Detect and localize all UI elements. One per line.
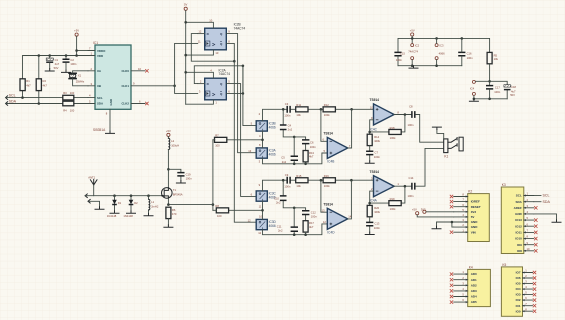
svg-text:SCL: SCL (97, 96, 103, 100)
resistor R6 470 vertical (166, 207, 177, 225)
ground antenna jack (95, 207, 104, 209)
analog switch IC3A 4066 (256, 148, 267, 158)
svg-text:14: 14 (348, 215, 351, 219)
capacitor C12 100n (294, 208, 317, 221)
wire SCL (6, 97, 88, 99)
wire T1 source (168, 198, 213, 204)
svg-text:ANT1: ANT1 (88, 175, 95, 179)
svg-text:VDDO: VDDO (97, 49, 106, 53)
svg-text:R13: R13 (309, 151, 314, 155)
svg-text:+5V: +5V (166, 129, 171, 133)
svg-text:RESET: RESET (471, 205, 481, 209)
svg-text:SDA: SDA (97, 102, 104, 106)
ground IC1 GND pin (106, 131, 115, 133)
ground K3 (552, 220, 561, 222)
svg-text:10: 10 (259, 214, 262, 218)
svg-text:2n2: 2n2 (278, 229, 283, 233)
svg-text:100k: 100k (374, 139, 380, 143)
svg-text:IO8: IO8 (517, 249, 522, 253)
svg-text:R1: R1 (26, 79, 30, 83)
svg-text:IO7: IO7 (516, 271, 521, 275)
node VDDO junction (75, 49, 78, 52)
wire RF to upper switch inputs (227, 131, 263, 148)
svg-text:13: 13 (248, 149, 251, 153)
svg-text:AD4: AD4 (471, 295, 477, 299)
wire IC4A minus input network (370, 186, 405, 205)
svg-text:R11: R11 (296, 103, 301, 107)
svg-text:74AC74: 74AC74 (219, 72, 231, 76)
node lower input junction (261, 209, 264, 212)
svg-text:5V: 5V (471, 215, 475, 219)
svg-text:1N4148: 1N4148 (123, 214, 133, 218)
K5 no-connects (533, 271, 536, 313)
svg-text:R3: R3 (63, 91, 67, 95)
wire R pin IC2B to 5V (186, 50, 219, 55)
node rail junctions (38, 54, 78, 57)
wire clock to IC2A (175, 86, 201, 94)
svg-text:100k: 100k (324, 184, 330, 188)
capacitor C3 100n (284, 102, 290, 118)
capacitor C18 4u7 electrolytic (490, 81, 517, 99)
svg-text:11: 11 (259, 205, 262, 209)
capacitor C14 100n (408, 176, 415, 198)
no-connect CLK2 (145, 102, 148, 105)
wire S pin IC2B from 5V (186, 18, 214, 28)
svg-text:AD3: AD3 (471, 289, 477, 293)
svg-text:100k: 100k (324, 113, 330, 117)
op-amp IC4A TS914 (370, 170, 400, 202)
capacitor C19 100n (168, 169, 192, 180)
svg-text:100uH: 100uH (171, 143, 179, 147)
svg-text:VIN: VIN (471, 230, 476, 234)
svg-text:SCL: SCL (9, 93, 16, 97)
resistor R13 4k7 vertical (303, 151, 314, 164)
node SDA/R2 junction (38, 102, 41, 105)
wire bus to IC3B ctrl (243, 66, 256, 126)
capacitor C5 2n2 (281, 137, 298, 164)
svg-text:X1: X1 (78, 73, 82, 77)
label IC3D (269, 220, 277, 228)
svg-text:100: 100 (215, 144, 220, 148)
node rail C16 junction (461, 37, 464, 40)
svg-text:SCL: SCL (543, 194, 550, 198)
svg-text:2n2: 2n2 (288, 128, 293, 132)
svg-text:R19: R19 (390, 197, 395, 201)
resistor R20 100k vertical (367, 205, 380, 216)
node D2 junction (130, 194, 133, 197)
svg-text:100n: 100n (284, 185, 290, 189)
node SCL/R1 junction (21, 96, 24, 99)
svg-text:IO9: IO9 (517, 243, 522, 247)
svg-text:BF545A: BF545A (173, 193, 183, 197)
svg-text:IO12: IO12 (515, 224, 522, 228)
net label SCL (6, 93, 16, 99)
svg-text:AD2: AD2 (471, 283, 477, 287)
node CLK junction (173, 85, 176, 88)
svg-text:4k7: 4k7 (309, 225, 314, 229)
node C5 bottom junction (293, 163, 296, 166)
svg-text:50V: 50V (510, 93, 515, 97)
label IC2A (219, 68, 231, 76)
svg-text:R14: R14 (374, 135, 379, 139)
node R11/R12 junction (320, 108, 323, 111)
svg-text:IO6: IO6 (516, 276, 521, 280)
wire CLK1 from IC1 (131, 85, 175, 87)
capacitor C7 100n (366, 146, 380, 161)
wire RF to lower switch inputs (228, 201, 262, 219)
wire I- line to IC4B plus input (259, 149, 328, 164)
jack K1 (444, 137, 464, 158)
svg-text:C6: C6 (310, 140, 314, 144)
svg-text:4u7: 4u7 (55, 62, 60, 66)
svg-text:AD0: AD0 (471, 272, 477, 276)
wire Qbar IC2B feedback and bus (191, 34, 234, 62)
svg-text:4k7: 4k7 (309, 155, 314, 159)
svg-text:3V3: 3V3 (471, 210, 477, 214)
ground top right (409, 66, 418, 68)
node rail IC2 junction (411, 37, 414, 40)
node R13 bottom junction (304, 163, 307, 166)
node Qbar bus tap (233, 60, 236, 63)
wire Q chain top (259, 180, 374, 191)
svg-text:TS914: TS914 (323, 132, 333, 136)
ground under R6 (164, 225, 173, 227)
svg-text:L1: L1 (151, 200, 154, 204)
svg-text:SDA: SDA (9, 100, 17, 104)
resistor R2 4k7 (36, 79, 47, 91)
svg-text:C3: C3 (285, 102, 289, 106)
wire to IC4B inverting input (321, 109, 327, 141)
svg-text:GND: GND (109, 99, 113, 105)
K4 no-connects (450, 272, 453, 303)
label IC3A (269, 149, 277, 157)
svg-text:D1: D1 (118, 201, 122, 205)
svg-text:IO4: IO4 (516, 287, 521, 291)
svg-text:IO5: IO5 (516, 282, 521, 286)
svg-text:R18: R18 (390, 126, 395, 130)
inductor L2 100uH (168, 138, 179, 187)
capacitor C17 100n (486, 86, 501, 99)
svg-text:IC4: IC4 (470, 86, 475, 90)
svg-text:4k7: 4k7 (26, 83, 31, 87)
capacitor C8 100n (408, 104, 415, 127)
svg-text:11: 11 (198, 40, 201, 44)
capacitor C2 100n (63, 58, 77, 70)
svg-text:C13: C13 (375, 222, 380, 226)
node IC4D out feedback junction (350, 179, 353, 182)
svg-text:100: 100 (70, 91, 75, 95)
wire IC4C output (394, 114, 411, 116)
resistor R15 10k (296, 174, 308, 188)
svg-text:13: 13 (322, 208, 325, 212)
svg-text:74AC74: 74AC74 (408, 50, 418, 54)
wire to IC4D inverting input (321, 180, 327, 212)
resistor R12 100k (323, 103, 335, 117)
ground K2 (432, 226, 441, 228)
IC1 pin stubs (88, 47, 145, 131)
node source feed junction (212, 203, 215, 206)
svg-text:100n: 100n (284, 114, 290, 118)
wire T1 source feed vertical (212, 140, 214, 211)
wire IC4D output (348, 180, 352, 219)
resistor R11 10k (296, 103, 308, 117)
ground under D2 (127, 211, 136, 213)
node R17 bottom junction (304, 233, 307, 236)
svg-text:IO2: IO2 (516, 298, 521, 302)
resistor R17 4k7 vertical (303, 221, 314, 235)
node source junction (167, 203, 170, 206)
resistor R19 100k feedback (389, 197, 401, 211)
svg-text:SCL: SCL (516, 194, 522, 198)
svg-text:IO13: IO13 (515, 218, 522, 222)
wire R pin IC2A to 5V (186, 100, 218, 105)
svg-text:IO11: IO11 (515, 231, 522, 235)
wire K3 SCL (534, 194, 550, 198)
svg-text:IC1: IC1 (93, 41, 98, 45)
svg-text:VDD: VDD (97, 54, 103, 58)
capacitor C6 100n (294, 137, 316, 151)
net label SDA (6, 100, 17, 106)
svg-text:4u7: 4u7 (511, 89, 516, 93)
power pins IC4 (470, 80, 490, 98)
svg-text:R17: R17 (309, 221, 314, 225)
wire K2 GND pins (437, 222, 454, 227)
ground under C2 (62, 70, 71, 72)
capacitor C15 100n (394, 51, 405, 65)
svg-text:100: 100 (70, 109, 75, 113)
no-connect CLK0 (145, 69, 148, 72)
svg-text:4k7: 4k7 (43, 83, 48, 87)
svg-text:C16: C16 (467, 51, 472, 55)
ground under C7 (365, 161, 374, 163)
ground K1 (432, 127, 441, 129)
svg-text:IC4A: IC4A (370, 198, 378, 202)
svg-text:IO10: IO10 (515, 237, 522, 241)
svg-text:12: 12 (323, 220, 326, 224)
node 5V/S2 junction (184, 71, 187, 74)
node VB junction (488, 80, 491, 83)
svg-text:+5V: +5V (412, 207, 417, 211)
diode D1 1N4148 (107, 196, 122, 218)
svg-text:T1: T1 (173, 188, 177, 192)
node R15/R16 junction (320, 179, 323, 182)
svg-text:10: 10 (370, 105, 373, 109)
node bias mid junction lower (293, 207, 296, 210)
svg-text:K1: K1 (444, 154, 448, 158)
svg-text:IC2: IC2 (415, 44, 420, 48)
K2 pin stubs (454, 193, 468, 234)
node drain/C19 junction (167, 168, 170, 171)
resistor R3 100 (63, 91, 75, 100)
svg-text:1N4148: 1N4148 (107, 214, 117, 218)
capacitor C1 4u7 (46, 58, 59, 70)
svg-text:C2: C2 (70, 58, 74, 62)
svg-text:10k: 10k (494, 57, 499, 61)
wire Q- line to IC4D plus input (258, 220, 327, 235)
antenna ANT1 (88, 175, 97, 195)
connector K2 (468, 190, 490, 242)
crystal X1 25MHz (68, 71, 88, 86)
svg-text:100n: 100n (467, 56, 473, 60)
wire D pin IC2B stub (198, 30, 205, 34)
svg-text:R6: R6 (172, 208, 176, 212)
IC1 SI5351A (93, 41, 131, 132)
svg-text:IO0: IO0 (516, 309, 521, 313)
wire Qbar IC2A feedback (194, 66, 243, 94)
power +5V symbol K2 (412, 207, 454, 217)
node L1 junction (147, 194, 150, 197)
op-amp IC4C TS914 (370, 98, 400, 131)
node upper input junction (261, 139, 264, 142)
svg-text:C5: C5 (281, 156, 285, 160)
svg-text:10: 10 (209, 18, 212, 22)
ground under C19 (176, 181, 185, 183)
capacitor C16 100n (458, 38, 473, 65)
svg-text:C1: C1 (55, 58, 59, 62)
power +5V symbol left (74, 28, 79, 55)
svg-text:XB: XB (97, 84, 101, 88)
node VB gnd junctions (473, 98, 491, 101)
svg-text:AREF: AREF (514, 206, 522, 210)
capacitor C4 2n2 (280, 109, 294, 137)
svg-text:12: 12 (248, 218, 251, 222)
node IC4A minus junction (368, 202, 371, 205)
node D1 junction (113, 194, 116, 197)
svg-text:C10: C10 (274, 196, 279, 200)
node 5V/R junction (184, 54, 187, 57)
svg-text:CLK2: CLK2 (121, 102, 129, 106)
wire C14 to jack ring (416, 148, 444, 186)
analog switch IC3C 4066 (256, 191, 267, 201)
svg-text:4066: 4066 (269, 153, 276, 157)
wire IC4A output (394, 185, 411, 187)
resistor R4 100 (63, 101, 75, 112)
svg-text:R12: R12 (324, 103, 329, 107)
power +5V symbol at T1 (166, 129, 171, 138)
K3 no-connects (534, 206, 537, 252)
wire clock to IC2B (175, 40, 202, 86)
K4 pin stubs (454, 270, 468, 303)
node output feedback junction lower (404, 185, 407, 188)
wire SDA (6, 103, 88, 105)
power pins IC2 (408, 44, 419, 66)
svg-text:10k: 10k (296, 184, 301, 188)
capacitor C11 2n2 (277, 208, 298, 235)
svg-text:50V: 50V (54, 66, 59, 70)
power +5V symbol top right (410, 29, 415, 44)
svg-text:100n: 100n (311, 215, 317, 219)
wire D pin IC2A stub (198, 80, 205, 84)
wire IC4B output (348, 109, 352, 148)
ground under C1 (45, 69, 54, 71)
wire C8 to jack tip (416, 115, 444, 143)
power pins IC3 (435, 38, 445, 65)
svg-text:100n: 100n (186, 177, 192, 181)
svg-text:R15: R15 (296, 174, 301, 178)
svg-text:C15: C15 (400, 51, 405, 55)
svg-text:100n: 100n (408, 194, 414, 198)
svg-text:12: 12 (258, 231, 261, 235)
node gnd bus junctions (411, 64, 438, 67)
svg-text:GND: GND (515, 212, 523, 216)
wire +5V rail (23, 56, 89, 104)
node C4 top junction (282, 108, 285, 111)
svg-text:C7: C7 (375, 150, 379, 154)
node output/feedback junction (404, 113, 407, 116)
node IC4C minus junction (368, 131, 371, 134)
flip-flop IC2B 74AC74 (205, 28, 227, 50)
ground under D1 (110, 211, 119, 213)
node 5V/S junction (184, 21, 187, 24)
svg-text:R8: R8 (215, 204, 219, 208)
svg-text:4066: 4066 (269, 125, 276, 129)
wire VB bottom line (474, 98, 507, 100)
svg-text:CLK0: CLK0 (121, 69, 129, 73)
flip-flop IC2A 74AC74 (205, 78, 227, 100)
svg-text:C4: C4 (288, 123, 292, 127)
label IC3C (269, 192, 277, 200)
svg-text:2n2: 2n2 (276, 201, 281, 205)
svg-text:+5V: +5V (410, 29, 415, 33)
wire K3 SDA (534, 200, 551, 204)
wire IC4C minus input network (370, 115, 405, 135)
svg-text:K3: K3 (502, 183, 506, 187)
svg-text:R5: R5 (494, 53, 498, 57)
power 5V symbol at flip-flops (184, 3, 187, 105)
svg-text:C12: C12 (311, 210, 316, 214)
ground under C13 (365, 232, 374, 234)
resistor R14 100k vertical (367, 134, 380, 145)
K2 no-connects (450, 195, 453, 234)
label IC2B (234, 23, 246, 31)
svg-text:100n: 100n (396, 58, 402, 62)
resistor R5 10k vertical (487, 52, 498, 85)
analog switch IC3B 4066 (256, 121, 267, 131)
node K2 gnd junction (451, 221, 454, 224)
svg-text:GND: GND (471, 220, 479, 224)
svg-text:5V: 5V (184, 3, 187, 7)
svg-text:IC4D: IC4D (327, 231, 335, 235)
wire top right power rail (398, 38, 490, 52)
svg-text:CLK1: CLK1 (121, 84, 129, 88)
wire Q IC2A to bus (226, 80, 256, 197)
resistor R16 100k (323, 174, 335, 188)
label IC3B (269, 122, 276, 130)
resistor R8 100 (213, 204, 229, 218)
node IC4B out feedback junction (350, 108, 353, 111)
resistor R1 4k7 (20, 79, 31, 91)
svg-text:AD5: AD5 (471, 300, 477, 304)
ground IC4 (469, 99, 478, 101)
svg-text:100: 100 (217, 214, 222, 218)
svg-text:R16: R16 (324, 174, 329, 178)
svg-text:4066: 4066 (269, 224, 276, 228)
svg-text:10: 10 (527, 247, 530, 251)
svg-text:R2: R2 (43, 79, 47, 83)
svg-text:SDA: SDA (543, 200, 551, 204)
wire S pin IC2A from 5V (186, 68, 214, 78)
wire I+ chain top (259, 109, 374, 121)
svg-text:R20: R20 (374, 206, 379, 210)
svg-text:C17: C17 (495, 86, 500, 90)
svg-text:TS914: TS914 (370, 170, 380, 174)
svg-text:IOREF: IOREF (471, 200, 480, 204)
terminal hook signal (85, 194, 87, 198)
svg-text:K2: K2 (468, 190, 472, 194)
svg-text:100k: 100k (374, 210, 380, 214)
inductor L1 2mH2 (149, 196, 159, 214)
svg-text:13: 13 (215, 51, 218, 55)
